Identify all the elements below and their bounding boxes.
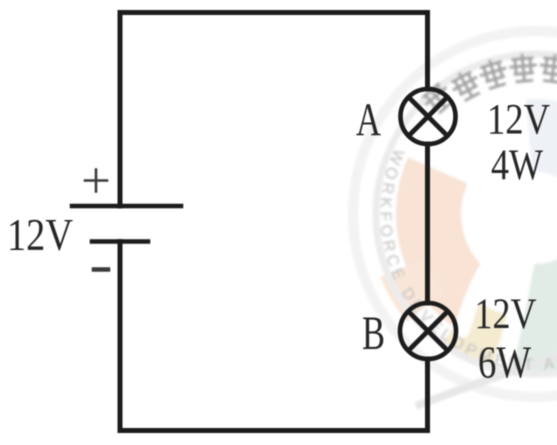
watermark outer circle: [353, 31, 557, 397]
battery negative plate (short): [92, 239, 148, 244]
battery minus sign: [94, 267, 108, 272]
wire bottom: [120, 428, 428, 433]
watermark petal blue: [526, 99, 557, 196]
svg-text:6W: 6W: [478, 338, 531, 388]
watermark petal salmon: [396, 157, 491, 326]
svg-text:B: B: [362, 307, 385, 360]
watermark petal yellow: [443, 299, 507, 366]
battery positive plate (long): [72, 204, 181, 209]
watermark petal teal: [495, 249, 557, 372]
watermark ring: [376, 54, 557, 374]
wire left upper (battery + plate up to top-left corner): [118, 13, 123, 207]
svg-text:A: A: [356, 94, 381, 146]
svg-text:12V: 12V: [7, 210, 73, 260]
battery plus sign: [85, 170, 107, 192]
wire top: [120, 10, 428, 15]
watermark petal salmon outer lobe: [380, 259, 444, 322]
watermark outer swoosh bottom-right: [416, 355, 557, 406]
lamp A circle: [401, 89, 456, 144]
lamp B circle: [400, 303, 456, 359]
wire right middle (lamp A to lamp B): [425, 144, 430, 303]
lamp A cross: [409, 98, 447, 136]
lamp B cross: [409, 312, 447, 350]
wire right lower (lamp B down to bottom-right corner): [425, 359, 430, 431]
svg-text:12V: 12V: [475, 291, 537, 338]
wire left lower (bottom-left corner up to battery - plate): [118, 242, 123, 431]
watermark white pinwheel swirls: [450, 102, 557, 365]
svg-text:4W: 4W: [491, 142, 543, 189]
wire right upper (top-right corner down to lamp A): [425, 13, 430, 90]
watermark Chinese arc text (drawn glyphs): [417, 52, 557, 117]
svg-text:12V: 12V: [487, 97, 550, 144]
